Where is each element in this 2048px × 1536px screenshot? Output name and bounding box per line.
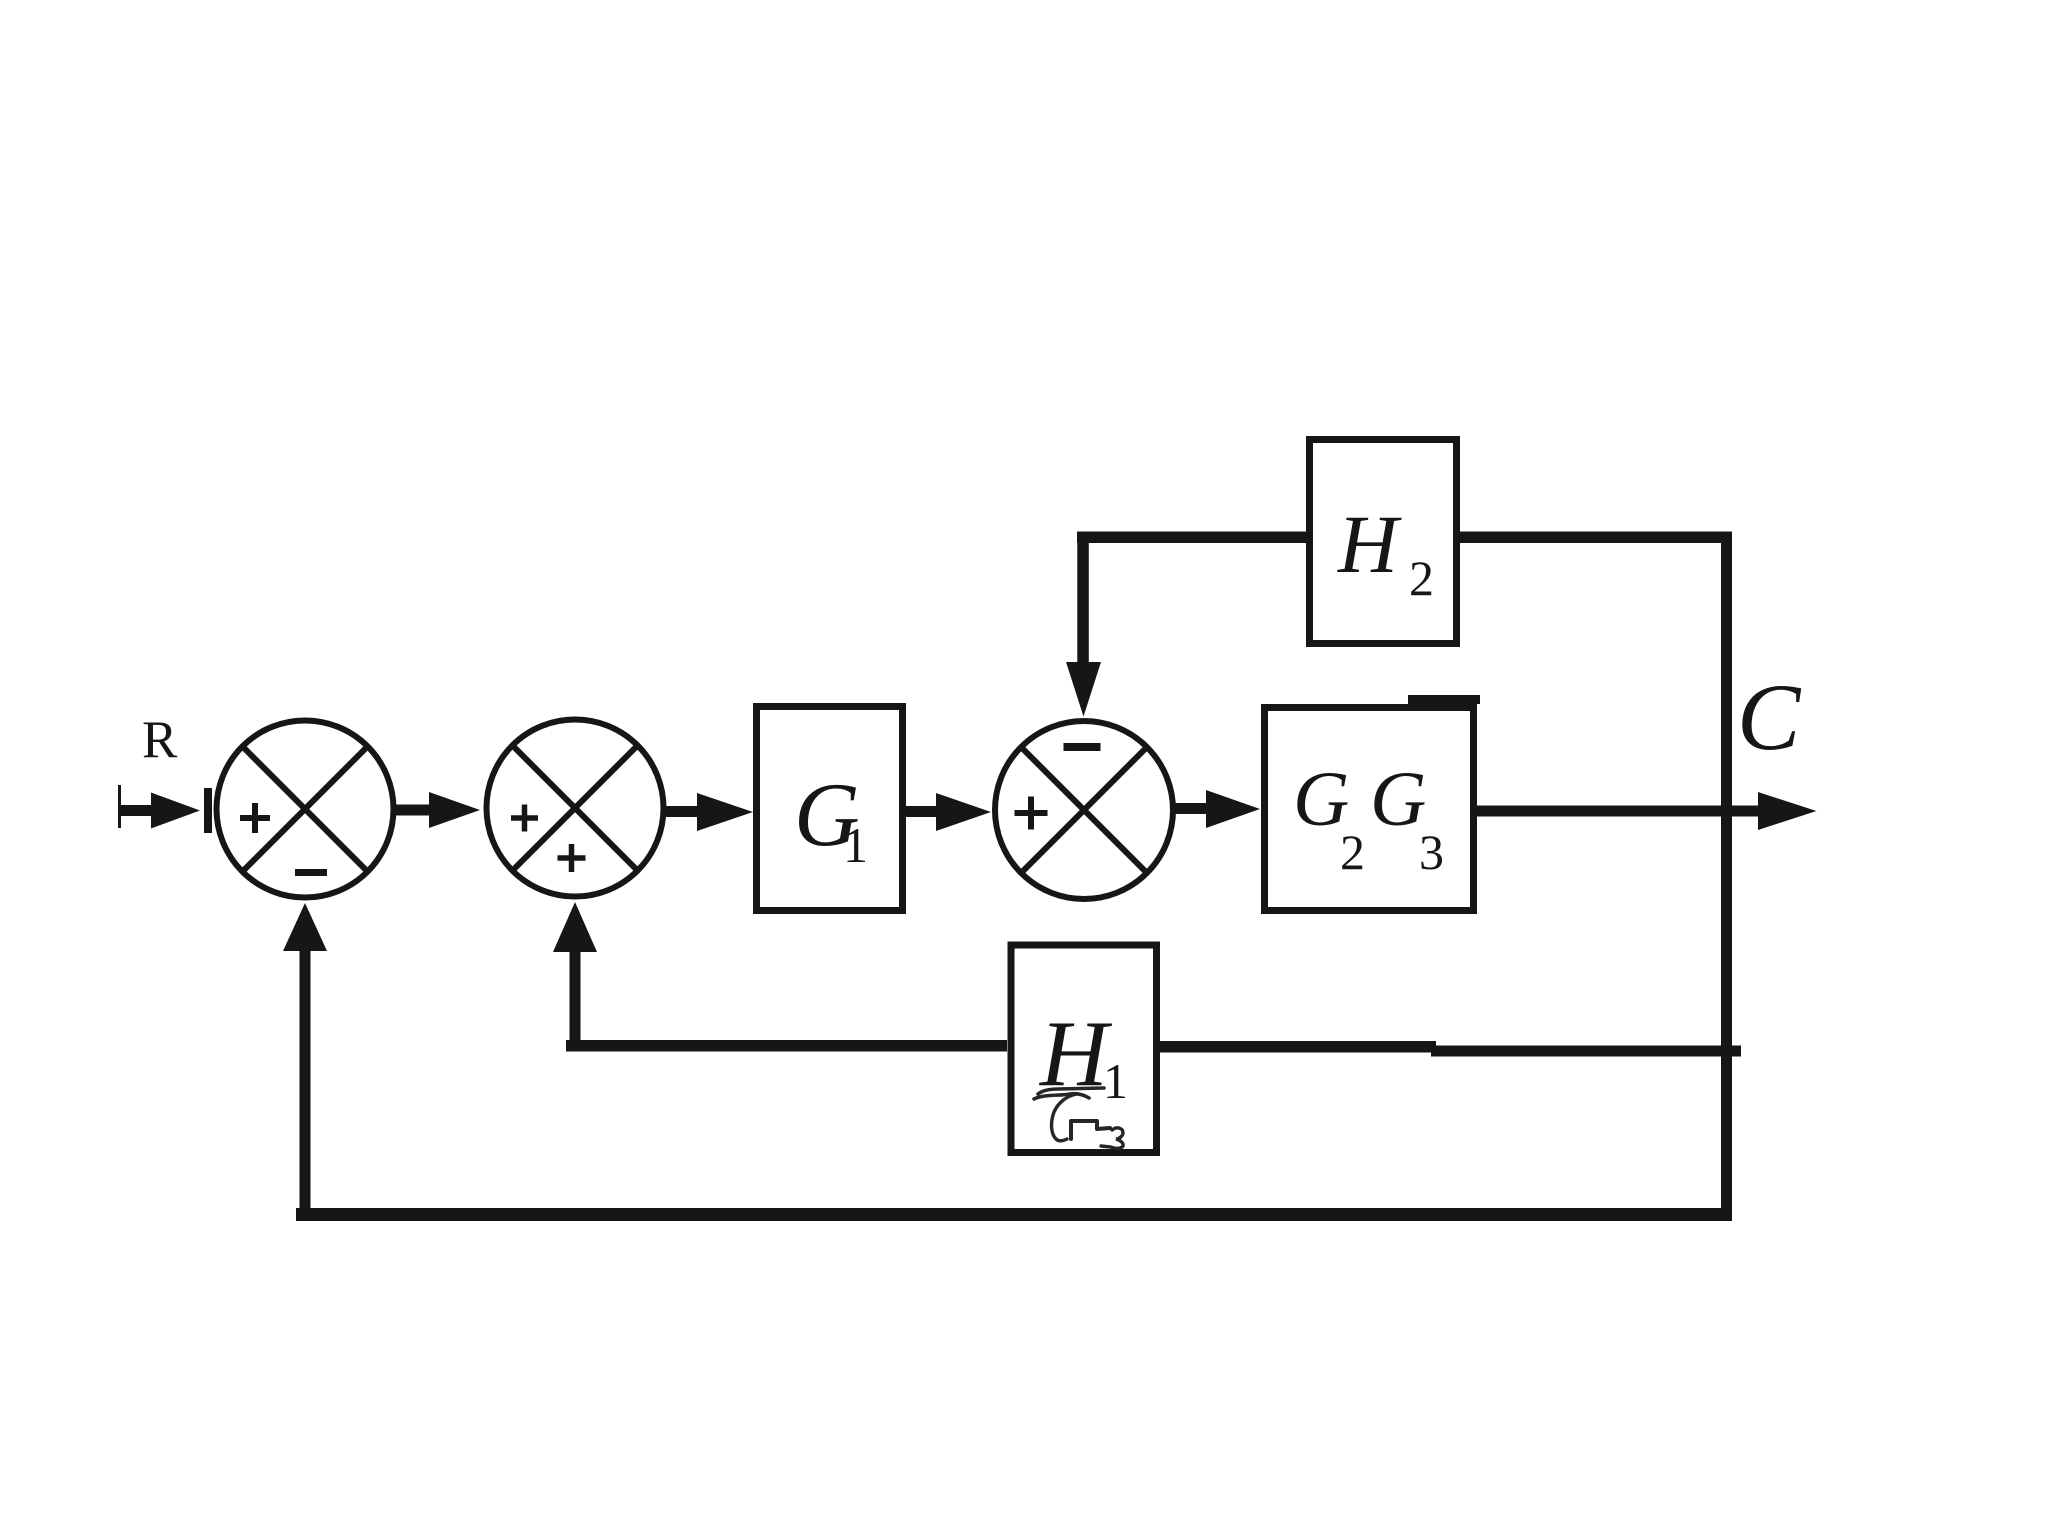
wire H1 left [566,1040,1007,1052]
wire H1 drop into S2 [553,902,597,1046]
svg-text:2: 2 [1409,550,1434,606]
svg-text:1: 1 [843,817,868,873]
wire output C [1477,792,1817,830]
summing junction S2 [487,720,664,897]
summing junction S1 [217,721,394,898]
label H1 numerator [1038,1002,1128,1109]
H1 handwritten G [1052,1094,1110,1141]
S1 minus sign [295,869,327,876]
summing junction S3 [995,721,1173,899]
block H1 [1011,945,1157,1153]
wire feedback vertical right [1721,532,1732,1222]
wire S3 to G2G3 [1175,790,1260,828]
wire H1 right segment B [1431,1046,1741,1057]
svg-text:G: G [1370,755,1426,842]
label G2G3 [1293,755,1444,880]
S2 plus sign left [511,805,538,832]
block G1 [757,707,903,911]
block H2 [1310,440,1457,644]
wire H1 right segment A [1160,1041,1436,1053]
block G2G3 [1265,708,1474,911]
svg-text:H: H [1337,498,1402,590]
S3 plus sign [1015,797,1048,830]
wire input R [119,793,200,829]
svg-text:1: 1 [1103,1053,1128,1109]
block G2G3 top overtrace [1408,695,1480,704]
wire S2 to G1 [666,793,753,831]
svg-text:R: R [142,711,178,769]
S3 minus sign [1064,743,1101,751]
wire H2 drop into S3 [1066,532,1101,717]
node R label [142,711,178,769]
wire H2 top right [1459,532,1732,544]
svg-text:2: 2 [1340,824,1365,880]
label H2 [1337,498,1434,606]
wire S1 to S2 [396,792,480,828]
input port tick at S1 [204,788,212,833]
H1 fraction bar [1034,1088,1104,1099]
S2 plus sign bottom [558,844,586,872]
wire outer feedback rise into S1 [283,903,327,1213]
svg-text:3: 3 [1419,824,1444,880]
wire H2 top left [1077,532,1308,544]
svg-text:C: C [1737,664,1802,770]
H1 handwritten subscript 3 [1101,1128,1123,1149]
wire input lead tick [118,785,121,828]
S1 plus sign [240,803,270,833]
node C label [1737,664,1802,770]
label G1 [794,764,868,873]
wire G1 to S3 [905,793,991,831]
wire outer feedback bottom [296,1208,1732,1221]
